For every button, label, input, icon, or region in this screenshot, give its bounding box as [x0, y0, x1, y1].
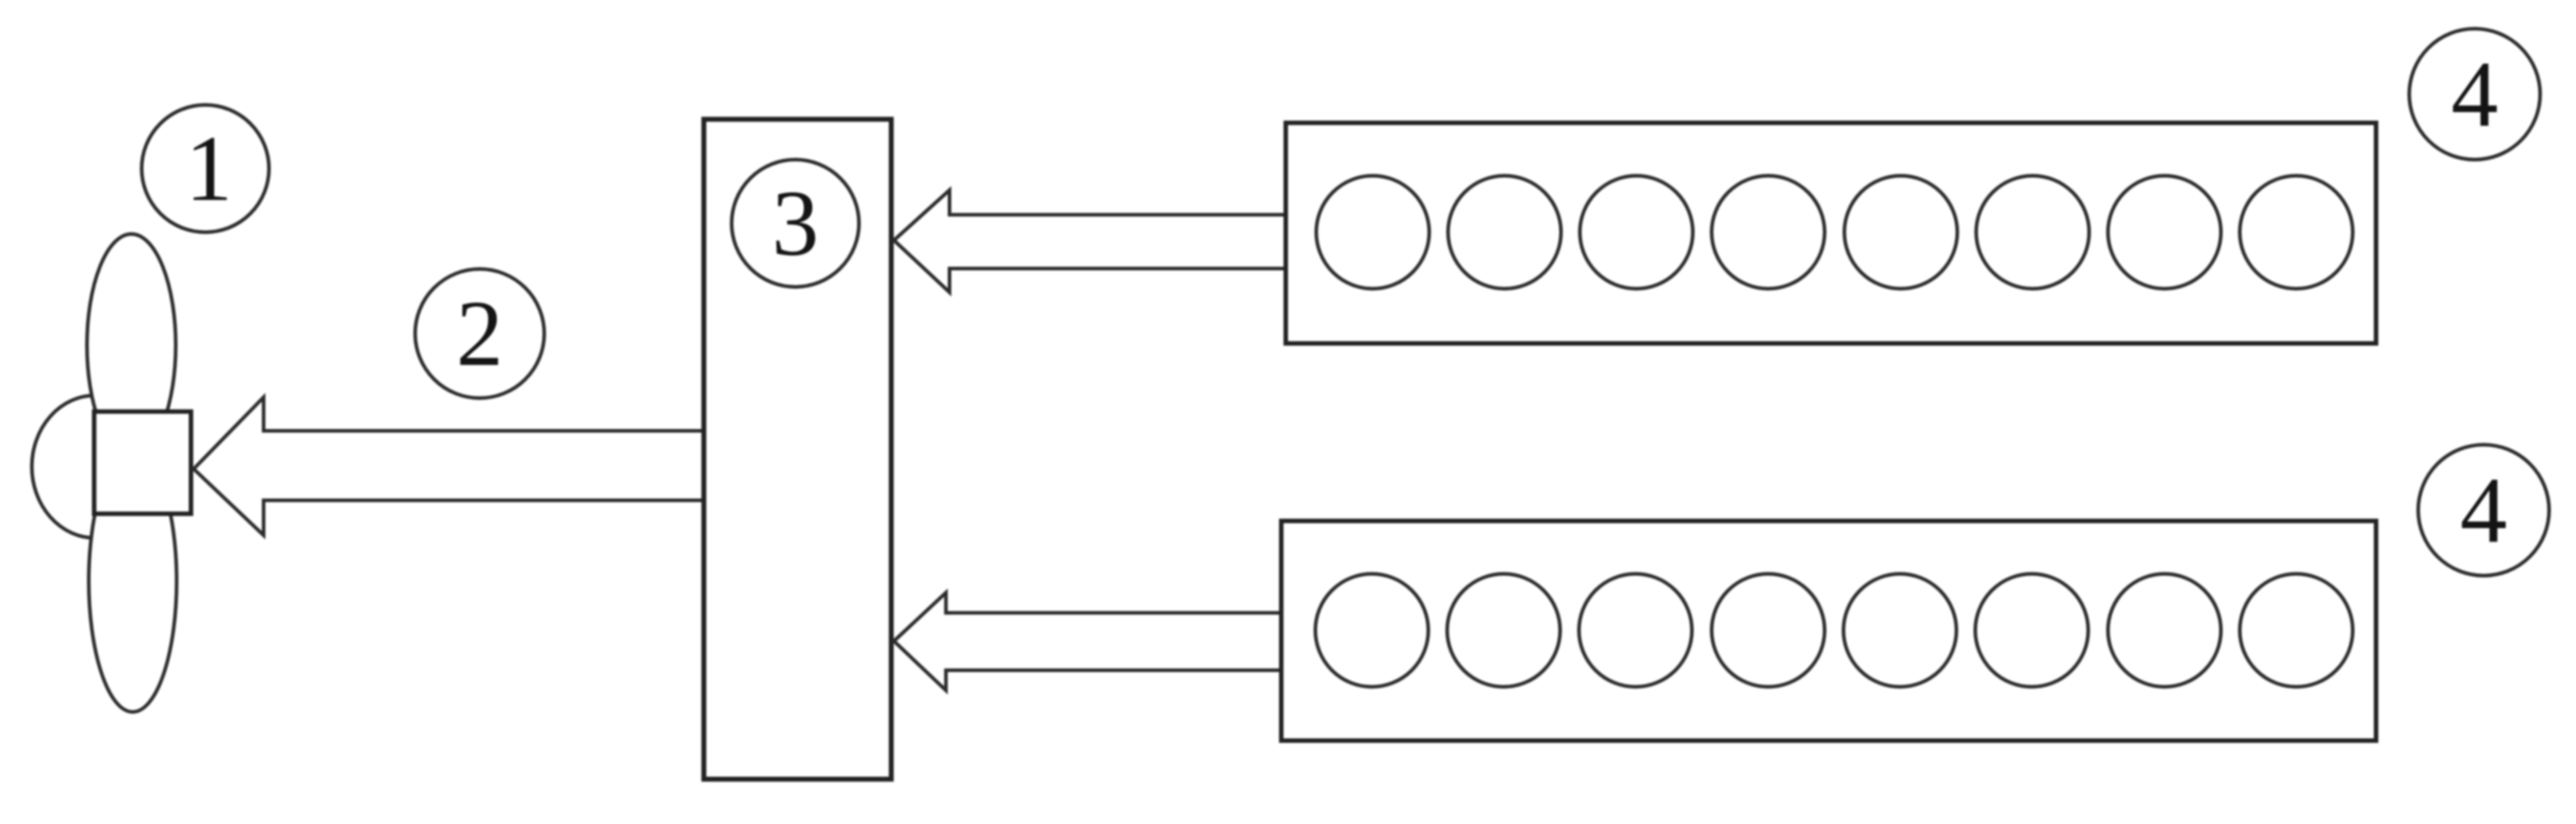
svg-text:1: 1 [186, 116, 233, 221]
top engine cylinder 2 [1448, 176, 1561, 289]
arrow from bottom engine to gearbox [894, 593, 1286, 690]
top engine cylinder 1 [1316, 176, 1429, 289]
gearbox 3 [704, 119, 891, 779]
propeller hub dome [31, 395, 95, 538]
top engine cylinder 8 [2240, 176, 2353, 289]
top engine cylinder 5 [1844, 176, 1957, 289]
bottom engine cylinder 3 [1579, 574, 1692, 687]
shaft arrow 2 (gearbox to propeller) [194, 397, 710, 535]
svg-text:3: 3 [772, 170, 820, 275]
propeller blade top [87, 234, 176, 456]
svg-text:4: 4 [2451, 41, 2499, 146]
top engine 4 [1286, 123, 2376, 343]
top engine cylinder 4 [1712, 176, 1825, 289]
bottom engine cylinder 6 [1975, 574, 2088, 687]
bottom engine cylinder 7 [2108, 574, 2221, 687]
bottom engine cylinder 5 [1843, 574, 1956, 687]
label circle 3 (gearbox) [732, 160, 859, 287]
label circle 1 (propeller) [142, 105, 269, 232]
top engine cylinder 7 [2108, 176, 2221, 289]
top engine cylinder 6 [1976, 176, 2089, 289]
top engine cylinder 3 [1580, 176, 1693, 289]
bottom engine cylinder 1 [1315, 574, 1428, 687]
bottom engine cylinder 8 [2240, 574, 2353, 687]
propeller blade bottom [89, 450, 177, 712]
bottom engine 4 [1281, 521, 2376, 741]
svg-text:2: 2 [456, 281, 504, 386]
label circle 4 (top engine) [2409, 29, 2540, 160]
svg-text:4: 4 [2460, 457, 2508, 562]
bottom engine cylinder 4 [1712, 574, 1825, 687]
arrow from top engine to gearbox [894, 190, 1291, 292]
label circle 2 (shaft) [415, 269, 544, 398]
label circle 4 (bottom engine) [2418, 445, 2549, 576]
propeller hub [94, 412, 191, 514]
bottom engine cylinder 2 [1447, 574, 1560, 687]
